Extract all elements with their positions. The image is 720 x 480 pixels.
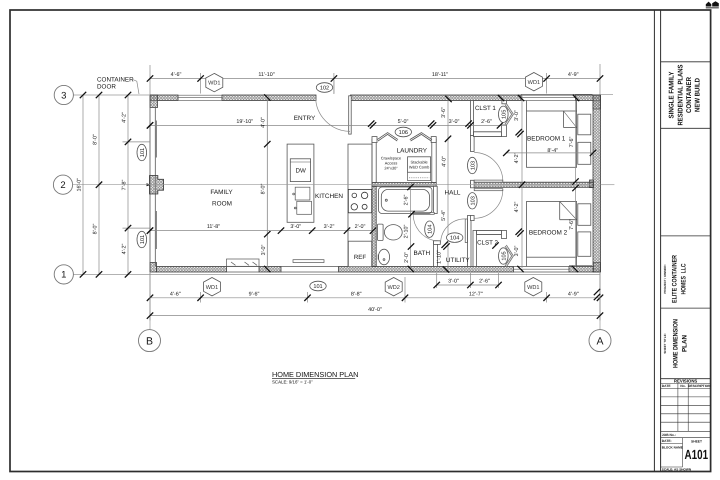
room label clst1 <box>475 105 496 112</box>
svg-text:SHEET TITLE:: SHEET TITLE: <box>663 333 667 353</box>
bath door 104 swing <box>413 215 434 241</box>
hexagon WD1 top right <box>525 73 542 91</box>
kitchen boundary line <box>266 101 268 267</box>
bed 1 <box>527 101 591 168</box>
svg-text:105: 105 <box>501 110 507 119</box>
grid bubble 1 <box>54 265 73 284</box>
svg-text:REVISIONS: REVISIONS <box>674 379 698 384</box>
bottom-left corner block <box>150 263 157 273</box>
svg-text:5'-0": 5'-0" <box>398 119 409 125</box>
102 leader <box>333 80 335 94</box>
bathtub <box>379 187 433 214</box>
svg-text:BATH: BATH <box>414 250 431 257</box>
bedroom2 window in bottom wall <box>514 266 593 272</box>
svg-text:4'-2": 4'-2" <box>122 112 128 123</box>
svg-text:7'-6": 7'-6" <box>569 219 575 230</box>
svg-text:4'-6": 4'-6" <box>171 72 182 78</box>
svg-text:SINGLE FAMILY: SINGLE FAMILY <box>669 71 676 118</box>
grid bubble A <box>589 330 611 352</box>
utility door 104 leaf <box>465 219 467 243</box>
grid line 1 <box>73 273 600 275</box>
clst2 bifold door <box>505 245 513 267</box>
grid line B <box>149 272 151 329</box>
svg-text:CONTAINER: CONTAINER <box>686 77 693 113</box>
bath door 104 leaf <box>413 212 434 214</box>
svg-text:ELITE CONTAINER: ELITE CONTAINER <box>672 255 679 303</box>
room label bedroom1 <box>527 136 575 154</box>
tag oval 105 clst2 <box>499 248 509 264</box>
svg-text:103: 103 <box>470 161 476 170</box>
laundry/bath divider wall <box>372 183 436 187</box>
top wall hatched segments <box>150 95 601 101</box>
svg-text:HOME DIMENSION PLAN: HOME DIMENSION PLAN <box>272 370 358 379</box>
svg-text:LAUNDRY: LAUNDRY <box>397 148 428 155</box>
clst1 bifold door <box>505 104 513 126</box>
grid line 3 <box>73 94 613 96</box>
utility west wall <box>434 241 438 267</box>
svg-text:8'-0": 8'-0" <box>260 184 266 195</box>
svg-text:2'-0": 2'-0" <box>355 224 366 230</box>
svg-text:2'-6": 2'-6" <box>403 195 409 206</box>
svg-text:PROJECT / OWNER:: PROJECT / OWNER: <box>663 264 667 293</box>
svg-text:104: 104 <box>428 225 434 234</box>
grid line A <box>599 272 601 329</box>
top dimension line <box>150 64 600 95</box>
hexagon WD1 bottom left <box>204 278 221 296</box>
mid wall between bedrooms <box>471 182 594 187</box>
door103-2 swing <box>474 189 503 219</box>
svg-text:105: 105 <box>501 251 507 260</box>
interior dim line 19'-10 / laundry / closet1 <box>150 124 506 126</box>
svg-text:SCALE: 9/16" = 1'-0": SCALE: 9/16" = 1'-0" <box>272 380 313 385</box>
svg-text:DW: DW <box>296 167 306 174</box>
svg-text:40'-0": 40'-0" <box>368 307 382 313</box>
kitchen island counter <box>287 144 314 222</box>
bed 2 <box>527 202 591 267</box>
svg-text:CLST 2: CLST 2 <box>477 239 498 246</box>
svg-text:DATE:: DATE: <box>662 439 672 443</box>
svg-text:DATE: DATE <box>662 384 672 388</box>
left wall center column <box>147 176 164 194</box>
svg-text:BEDROOM 2: BEDROOM 2 <box>529 230 568 237</box>
svg-text:3'-0": 3'-0" <box>261 245 267 256</box>
svg-text:REF: REF <box>354 254 367 261</box>
svg-text:WD2: WD2 <box>387 285 399 291</box>
bath vertical dim x410.5 <box>410 187 412 269</box>
right wall grid2 bump <box>590 180 594 188</box>
container door opening in top wall <box>178 95 222 100</box>
bottom-right corner block <box>594 263 601 273</box>
utility door 104 swing <box>441 219 465 243</box>
interior dim line 11'-8 kitchen <box>150 230 373 232</box>
svg-text:3'-0": 3'-0" <box>514 246 520 257</box>
tag oval 102 <box>316 83 332 93</box>
svg-text:No.: No. <box>680 384 685 388</box>
right wall <box>593 95 601 272</box>
svg-text:A: A <box>596 335 603 347</box>
grid bubble 3 <box>54 85 73 104</box>
svg-text:4'-9": 4'-9" <box>568 291 579 297</box>
grid bubble B <box>139 330 161 352</box>
room label hall <box>445 190 461 197</box>
bedroom1 window in top wall <box>521 94 593 100</box>
title block separator <box>654 10 710 472</box>
svg-text:11'-8": 11'-8" <box>207 224 220 230</box>
svg-text:2'-6": 2'-6" <box>481 119 492 125</box>
title block section lines <box>661 62 711 379</box>
clst1 south wall <box>474 132 502 137</box>
room label bath <box>414 250 431 257</box>
laundry accordion door <box>372 133 436 143</box>
hexagon WD2 bottom <box>385 278 402 296</box>
svg-text:HOME DIMENSION: HOME DIMENSION <box>673 319 680 368</box>
svg-text:2'-6": 2'-6" <box>479 279 490 285</box>
svg-text:FAMILY: FAMILY <box>210 189 233 196</box>
revisions table <box>661 379 712 432</box>
bedroom2 height dim 7'-6 <box>575 187 577 266</box>
sliding door 101 in bottom wall <box>281 260 339 272</box>
grid line 2 <box>73 184 615 186</box>
svg-text:PLAN: PLAN <box>682 335 689 352</box>
svg-text:B: B <box>146 335 153 347</box>
svg-text:9'-6": 9'-6" <box>249 291 260 297</box>
svg-text:101: 101 <box>140 235 146 244</box>
mid wall west cap <box>471 180 475 188</box>
svg-text:CONTAINER: CONTAINER <box>97 76 134 83</box>
interior vertical dim x448 hall <box>447 99 449 269</box>
svg-text:102: 102 <box>320 86 329 92</box>
bedroom1 height dim 7'-6 <box>575 101 577 183</box>
svg-text:DESCRIPTION: DESCRIPTION <box>688 384 711 388</box>
room label entry <box>294 115 316 122</box>
interior vertical dim x267 <box>266 99 268 268</box>
tag oval 101 bottom <box>310 281 326 291</box>
svg-text:BEDROOM 1: BEDROOM 1 <box>527 136 566 143</box>
room label laundry <box>397 148 428 155</box>
svg-text:8'-0": 8'-0" <box>93 224 99 235</box>
svg-text:HALL: HALL <box>445 190 461 197</box>
svg-text:UTILITY: UTILITY <box>446 257 471 264</box>
tag oval 105 clst1 <box>499 106 509 122</box>
entry door leaf <box>349 96 352 134</box>
room label utility <box>446 257 471 264</box>
project owner <box>663 255 688 303</box>
svg-text:103: 103 <box>470 196 476 205</box>
svg-text:3'-0": 3'-0" <box>514 110 520 121</box>
laundry east wall <box>432 139 436 182</box>
door103-1 swing <box>474 153 503 183</box>
svg-text:JOB No.:: JOB No.: <box>662 433 676 437</box>
svg-text:3'-2": 3'-2" <box>324 224 335 230</box>
svg-text:101: 101 <box>313 284 322 290</box>
clst1 west wall <box>471 101 474 136</box>
svg-text:BLOCK NAME: BLOCK NAME <box>662 445 683 449</box>
svg-text:7'-8": 7'-8" <box>122 180 128 191</box>
svg-text:RESIDENTIAL PLANS: RESIDENTIAL PLANS <box>678 64 685 125</box>
crawlspace access text <box>381 156 401 171</box>
bath sink <box>378 249 389 265</box>
svg-text:7'-6": 7'-6" <box>569 137 575 148</box>
toilet <box>378 224 403 240</box>
svg-text:WD1: WD1 <box>527 285 539 291</box>
svg-text:8'-0": 8'-0" <box>93 134 99 145</box>
room label bedroom2 <box>529 219 575 237</box>
wall junction ticks <box>147 94 600 300</box>
svg-text:1: 1 <box>61 270 66 281</box>
svg-text:1'-10": 1'-10" <box>437 250 443 264</box>
top-left corner block <box>150 95 158 108</box>
svg-text:3'-6": 3'-6" <box>441 107 447 118</box>
svg-text:4'-6": 4'-6" <box>170 291 181 297</box>
svg-text:8'-4": 8'-4" <box>547 148 558 154</box>
clst1 north stub <box>502 101 507 104</box>
svg-text:WD1: WD1 <box>206 285 218 291</box>
job info <box>661 433 711 472</box>
svg-text:2'-10": 2'-10" <box>404 225 410 239</box>
svg-text:WD1: WD1 <box>208 81 220 87</box>
tag oval 104 bath <box>425 221 435 237</box>
tag oval 103 upper <box>468 157 478 173</box>
tag oval 101 left lower <box>137 231 147 247</box>
interior vertical dim x522 bedrooms <box>521 95 523 268</box>
tag oval 106 <box>395 127 411 137</box>
hexagon WD1 bottom right <box>525 278 542 296</box>
kitchen east counter <box>348 144 372 266</box>
left dimension lines <box>83 95 150 274</box>
door103-2 stub <box>471 216 475 221</box>
kitchen/bath west wall <box>372 139 376 266</box>
svg-text:CLST 1: CLST 1 <box>475 105 496 112</box>
svg-text:24"x30": 24"x30" <box>384 166 398 171</box>
tag oval 101 left upper <box>137 144 147 160</box>
entry door swing <box>316 97 350 132</box>
hexagon WD1 top <box>206 73 223 91</box>
utility bottom dims <box>437 273 499 288</box>
svg-text:W&D Comb: W&D Comb <box>409 165 430 170</box>
tag oval 103 lower <box>468 193 478 209</box>
room label kitchen <box>315 193 343 200</box>
svg-text:SCALE: AS SHOWN: SCALE: AS SHOWN <box>662 467 692 471</box>
svg-text:4'-9": 4'-9" <box>568 72 579 78</box>
svg-text:ROOM: ROOM <box>212 200 232 207</box>
svg-text:16'-0": 16'-0" <box>77 178 83 192</box>
svg-text:3'-0": 3'-0" <box>449 119 460 125</box>
svg-text:18'-11": 18'-11" <box>432 72 448 78</box>
clst1 south wall cap <box>502 125 507 137</box>
refrigerator REF <box>348 241 371 267</box>
svg-text:3'-0": 3'-0" <box>290 224 301 230</box>
bath east wall upper <box>434 186 438 213</box>
clst2 north wall <box>477 231 502 235</box>
container door label <box>97 76 139 94</box>
svg-text:4'-0": 4'-0" <box>441 156 447 167</box>
grid bubble 2 <box>53 175 72 194</box>
svg-text:3'-0": 3'-0" <box>448 279 459 285</box>
svg-text:HOMES LLC: HOMES LLC <box>681 263 688 294</box>
room label clst2 <box>477 239 498 246</box>
svg-text:WD1: WD1 <box>528 80 540 86</box>
clst2 west wall <box>473 231 477 267</box>
svg-text:11'-10": 11'-10" <box>258 72 274 78</box>
room label family room <box>210 189 233 207</box>
tag oval 104 utility <box>447 233 463 243</box>
utility north wall stub <box>434 241 441 245</box>
svg-text:104: 104 <box>450 236 459 242</box>
stackable W&D unit <box>408 157 431 181</box>
svg-text:4'-2": 4'-2" <box>514 153 520 164</box>
svg-text:NEW BUILD: NEW BUILD <box>695 78 702 112</box>
svg-text:8'-8": 8'-8" <box>351 291 362 297</box>
door103-1 stub <box>471 136 475 152</box>
top-right corner block <box>593 95 601 109</box>
utility/bedroom2 east wall <box>468 216 472 267</box>
family room window in bottom wall <box>227 259 260 272</box>
bottom dimension row 1 <box>150 277 600 303</box>
svg-text:4'-2": 4'-2" <box>122 244 128 255</box>
svg-text:19'-10": 19'-10" <box>236 119 253 125</box>
kitchen sink <box>293 187 312 214</box>
svg-text:SHEET: SHEET <box>691 440 702 444</box>
svg-text:2: 2 <box>60 180 65 191</box>
svg-text:2'-0": 2'-0" <box>404 252 410 263</box>
svg-text:KITCHEN: KITCHEN <box>315 193 343 200</box>
svg-text:5'-4": 5'-4" <box>441 210 447 221</box>
svg-text:3: 3 <box>61 90 66 101</box>
bottom wall hatched segments <box>157 267 594 273</box>
range / stove <box>348 189 371 212</box>
bottom dimension row 2 overall 40'-0 <box>150 272 600 321</box>
left wall <box>150 95 156 272</box>
bedroom1 width dim 8'-4 <box>506 152 593 154</box>
dishwasher DW <box>290 159 310 182</box>
svg-text:12'-7": 12'-7" <box>469 291 483 297</box>
project name rotated text <box>669 64 702 125</box>
svg-text:ENTRY: ENTRY <box>294 115 316 122</box>
clst2 north wall cap <box>502 231 507 239</box>
drawing title <box>272 370 358 385</box>
sheet title <box>663 319 689 368</box>
svg-text:4'-0": 4'-0" <box>260 117 266 128</box>
svg-text:4'-2": 4'-2" <box>514 202 520 213</box>
svg-text:106: 106 <box>399 130 408 136</box>
svg-text:101: 101 <box>140 148 146 157</box>
logo <box>706 1 719 8</box>
svg-text:A101: A101 <box>685 447 709 462</box>
svg-text:DOOR: DOOR <box>97 84 116 91</box>
